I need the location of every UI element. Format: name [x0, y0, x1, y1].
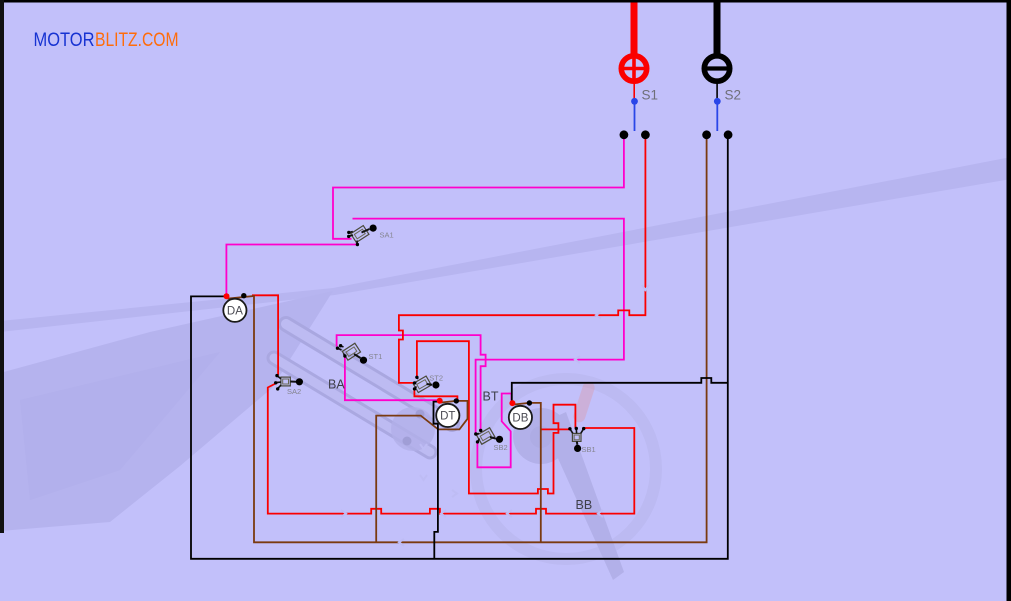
switch ST2: [413, 376, 440, 393]
svg-text:BA: BA: [328, 378, 345, 392]
wire brown DA right terminal to S2 plug (bottom rail): [227, 138, 706, 542]
wire magenta ST1 upper pin to SB2 upper pin: [337, 335, 486, 430]
svg-text:DB: DB: [512, 412, 528, 424]
border left: [0, 0, 4, 533]
node plug dot 3: [702, 130, 711, 139]
node S1 blue terminal: [631, 98, 638, 105]
lamp DB: [509, 406, 532, 429]
switch SB2: [474, 428, 503, 445]
svg-text:ST1: ST1: [369, 352, 383, 361]
svg-text:BT: BT: [483, 390, 499, 404]
wire red SB1 left pin stub to brown bus: [541, 428, 570, 430]
node DT left terminal (red): [437, 398, 443, 404]
node DA left terminal (red): [224, 293, 230, 299]
wire magenta ST1 bottom pin to DT left terminal: [345, 356, 439, 400]
svg-text:SB2: SB2: [494, 443, 508, 452]
wire black S2 plug to DA left terminal (outer loop): [191, 138, 728, 559]
wire brown DB right terminal to bottom rail: [513, 403, 541, 542]
wire brown DT right terminal to bottom rail: [376, 401, 467, 542]
svg-text:DA: DA: [227, 305, 243, 317]
wire black branch to DB left terminal: [512, 378, 728, 402]
wire magenta SA1 bottom pin to DA left terminal: [226, 245, 356, 296]
wire red ST2 bottom pin to DT right terminal: [414, 389, 457, 401]
svg-text:SB1: SB1: [582, 445, 596, 454]
node DA right terminal (black): [241, 293, 246, 298]
switch SA2: [274, 374, 303, 391]
svg-text:SA1: SA1: [380, 231, 394, 240]
lamp DA: [223, 299, 246, 322]
wire magenta S1 plug to SA1 lower-left pin: [333, 138, 624, 239]
wire black DT left terminal to bottom rail: [434, 402, 440, 559]
node S2 blue terminal: [714, 98, 721, 105]
wire magenta DB left terminal to SB2 bottom pin: [477, 394, 511, 468]
node plug dot 2: [641, 130, 650, 139]
flow arrows (faint): [341, 285, 649, 546]
svg-text:DT: DT: [440, 410, 455, 422]
node plug dot 1: [620, 130, 629, 139]
svg-text:BLITZ.COM: BLITZ.COM: [95, 30, 179, 51]
svg-text:MOTOR: MOTOR: [34, 30, 95, 51]
svg-text:SA2: SA2: [287, 387, 301, 396]
svg-text:S2: S2: [725, 88, 742, 103]
supply S2 (negative terminal): [704, 0, 729, 98]
wire magenta SA1 top pin to SB2 pin (via right bus): [353, 219, 624, 434]
svg-text:ST2: ST2: [429, 374, 443, 383]
svg-text:BB: BB: [576, 498, 593, 512]
WATERMARK: [0, 157, 1011, 580]
wire red ST2 top pin to SB1 top pin: [417, 341, 576, 493]
switch SB1: [568, 427, 585, 452]
wire red S1 plug to ST2 left pin: [399, 138, 646, 383]
border top: [0, 0, 1011, 3]
supply S1 (positive terminal): [621, 0, 647, 98]
border right: [1007, 0, 1011, 601]
switch ST1: [336, 343, 367, 364]
wire red DA right terminal to SA2 top pin: [252, 295, 278, 375]
lamp DT: [436, 404, 459, 427]
node DB right terminal (black): [527, 400, 532, 405]
node DT right terminal (black): [454, 398, 459, 403]
svg-text:S1: S1: [642, 88, 659, 103]
node DB left terminal (red): [509, 400, 515, 406]
wire red SA2 bottom pin to SB1 right pin (bottom rail and BB loop): [268, 382, 635, 514]
switch SA1: [347, 225, 377, 247]
node plug dot 4: [724, 130, 733, 139]
